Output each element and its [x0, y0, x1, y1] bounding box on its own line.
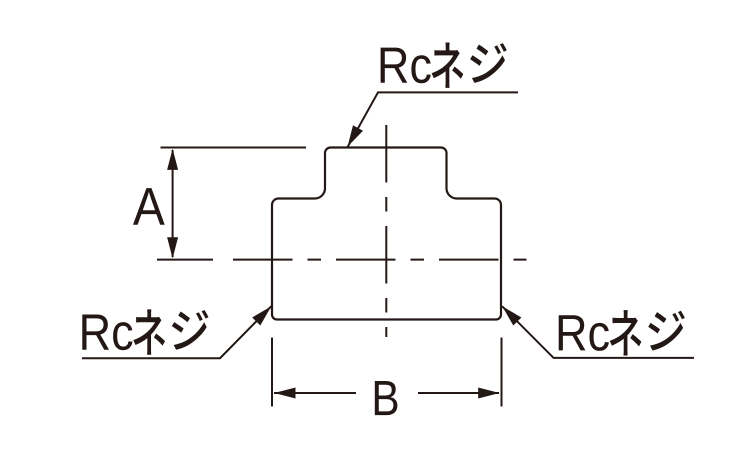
leader arrowhead top	[348, 125, 364, 147]
katakana ji glyph	[172, 310, 209, 350]
label Rc-neji bottom left	[82, 309, 208, 354]
katakana ne glyph	[610, 310, 642, 355]
dimension letter B	[375, 381, 398, 415]
leader line bottom right (Rc thread)	[502, 306, 694, 358]
dimension B line right segment	[418, 392, 499, 394]
katakana ji glyph	[470, 43, 507, 83]
dimension B arrowhead left	[274, 388, 295, 399]
tee fitting body outline	[272, 148, 501, 320]
dimension A bottom extension line	[157, 259, 213, 261]
dimension B left extension line	[271, 338, 273, 407]
dimension letter A	[133, 188, 165, 225]
dimension B arrowhead right	[478, 388, 499, 399]
katakana ne glyph	[133, 309, 165, 354]
dimension B line left segment	[274, 392, 356, 394]
leader line bottom left (Rc thread)	[82, 306, 271, 358]
leader line top (Rc thread)	[348, 92, 518, 146]
vertical center line	[385, 125, 387, 337]
label text Rc	[381, 48, 431, 84]
katakana ne glyph	[432, 42, 464, 87]
label text Rc	[559, 315, 609, 351]
leader arrowhead bottom left	[252, 306, 271, 325]
dimension A arrowhead down	[167, 237, 178, 258]
dimension A top extension line	[161, 147, 307, 149]
label text Rc	[82, 315, 132, 351]
horizontal center line	[233, 259, 527, 261]
dimension A line	[172, 150, 174, 257]
label Rc-neji bottom right	[559, 310, 685, 355]
dimension B right extension line	[501, 338, 503, 407]
label Rc-neji top	[381, 42, 507, 87]
katakana ji glyph	[648, 311, 685, 351]
dimension A arrowhead up	[167, 149, 178, 170]
leader arrowhead bottom right	[502, 306, 521, 325]
